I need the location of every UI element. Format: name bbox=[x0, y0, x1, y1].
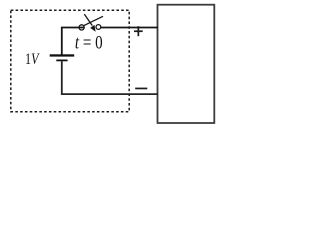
switch S1 (closes at t=0) bbox=[79, 14, 103, 32]
label - terminal bbox=[135, 88, 147, 90]
wire battery negative to load box (bottom) bbox=[62, 61, 158, 94]
switch closing arrow bbox=[84, 14, 92, 26]
dashed source enclosure bbox=[11, 10, 129, 112]
wire switch right contact to load box bbox=[101, 27, 158, 29]
wire battery top to switch left contact bbox=[62, 28, 85, 55]
battery V1 1V bbox=[50, 54, 74, 61]
switch blade bbox=[84, 16, 103, 25]
svg-text:1V: 1V bbox=[25, 51, 41, 69]
label + terminal bbox=[134, 26, 143, 36]
switch right contact bbox=[96, 25, 101, 30]
svg-text:t = 0: t = 0 bbox=[75, 32, 103, 53]
load box (network) bbox=[158, 5, 215, 123]
switch left contact bbox=[79, 25, 84, 30]
